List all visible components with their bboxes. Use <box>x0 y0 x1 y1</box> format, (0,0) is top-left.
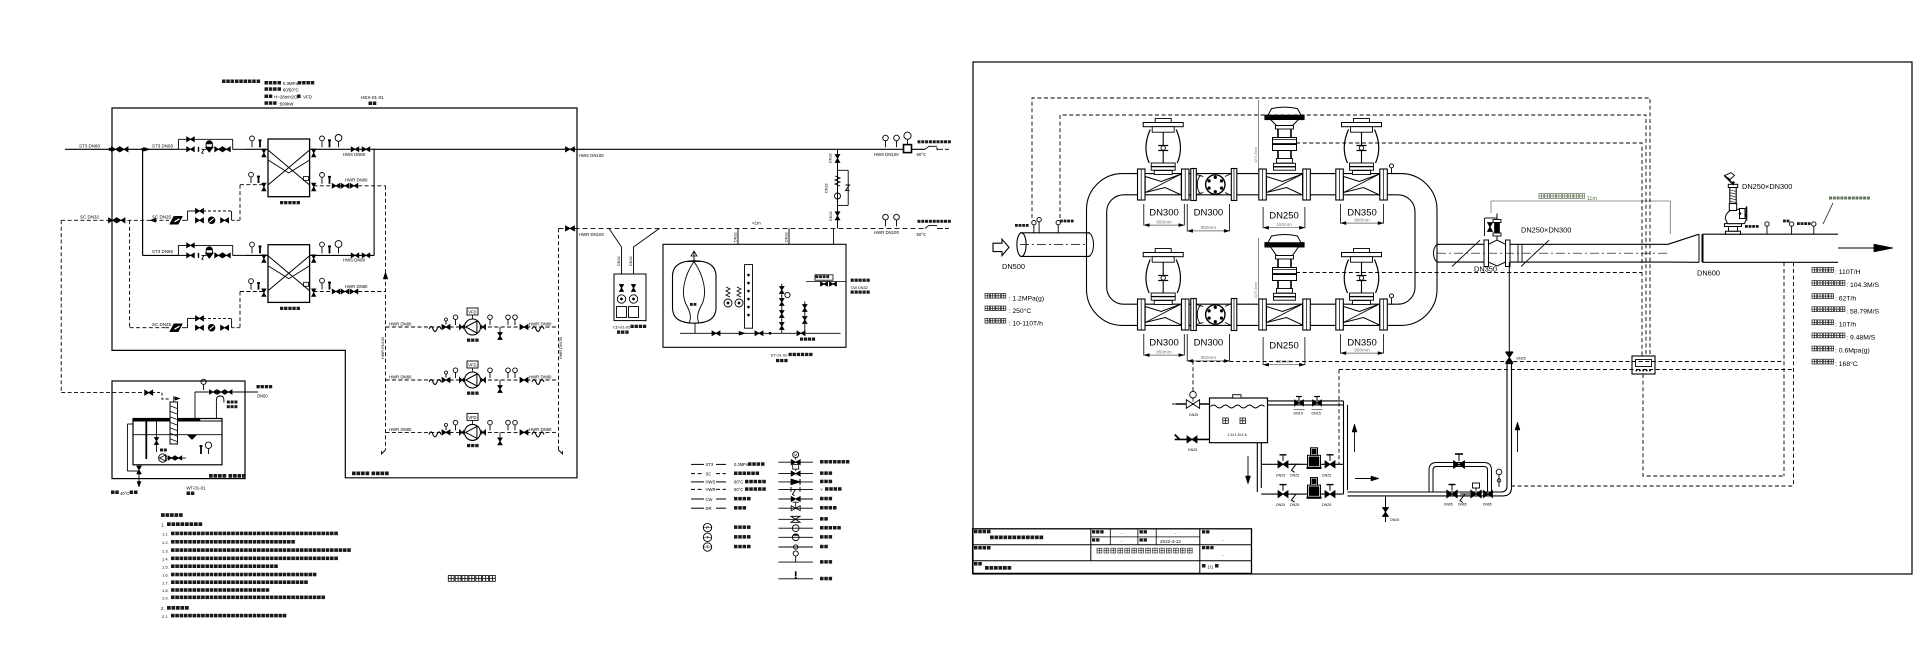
trap line valves <box>196 325 204 330</box>
svg-text:DN300: DN300 <box>1149 338 1179 349</box>
svg-text:DN25: DN25 <box>1189 413 1198 417</box>
steam main ST3 DN80 wire <box>65 148 178 150</box>
steam bypass group 1 <box>178 148 188 150</box>
bypass rect <box>838 169 849 171</box>
reducer <box>460 377 464 382</box>
tank outlet pipe top <box>1268 400 1344 402</box>
vent hook <box>216 396 224 407</box>
DN250 bot dimension bracket <box>1262 337 1264 365</box>
svg-text:DN250×DN300: DN250×DN300 <box>1521 226 1571 235</box>
DN250 top dimension bracket <box>1262 207 1264 228</box>
svg-text:DN250: DN250 <box>1269 341 1299 352</box>
dashed pump-control line <box>1339 369 1794 371</box>
valves after PRV <box>215 147 223 152</box>
title 图名 <box>974 562 978 566</box>
svg-text:DN25: DN25 <box>1390 518 1399 522</box>
remark 接自来水管 CW DN32 从此处接入 <box>851 279 854 282</box>
svg-text:DN25: DN25 <box>1188 448 1197 452</box>
label 两台 WT <box>187 492 191 496</box>
pressure reducing valve w/ actuator <box>206 142 213 149</box>
svg-text:2.1.: 2.1. <box>162 614 169 619</box>
svg-text:HWR DN100: HWR DN100 <box>874 230 899 235</box>
gauges on HWS main <box>885 141 887 148</box>
label 水箱两台 ET <box>776 359 779 362</box>
main valves <box>187 147 195 152</box>
svg-text:50°C: 50°C <box>734 487 743 492</box>
steam branch 2 drop <box>142 149 144 255</box>
HX label 板式换热器 <box>280 201 283 204</box>
svg-text:SC: SC <box>706 471 712 476</box>
svg-text:60°C: 60°C <box>917 152 927 157</box>
legend item HWS <box>691 481 704 483</box>
svg-text:11m: 11m <box>1587 196 1598 202</box>
SC DN32 main dashed <box>61 219 108 221</box>
condensate tank unit box WT-01-01 <box>112 381 245 479</box>
VFD box <box>467 361 478 368</box>
svg-text:HWR DN80: HWR DN80 <box>529 375 552 380</box>
svg-text:DN25: DN25 <box>1290 503 1299 507</box>
elbow to riser <box>1501 486 1507 492</box>
outlet globe valves DN15 <box>1295 400 1304 406</box>
dashed level-control line <box>1193 362 1784 392</box>
header line4 换热量:500kW <box>265 101 269 105</box>
legend Y型过滤器 <box>778 488 813 490</box>
spec 9.48M/S <box>1812 333 1817 338</box>
svg-text:CD-01-02: CD-01-02 <box>613 325 631 330</box>
HWR riser right (pump discharge header) <box>558 228 560 450</box>
svg-text:0.3MPa: 0.3MPa <box>283 81 299 86</box>
svg-text:990mm: 990mm <box>1354 347 1369 352</box>
steam trap symbol <box>170 324 182 332</box>
bottom main line to riser <box>1348 491 1502 493</box>
legend 排水 <box>778 578 813 580</box>
svg-text:DN25: DN25 <box>1276 503 1285 507</box>
pressure reducing valve <box>1471 490 1481 498</box>
legend instrument circles <box>703 523 711 531</box>
spec 110T/H <box>1812 268 1817 273</box>
safety relief valve <box>1726 231 1741 234</box>
svg-text:VFD: VFD <box>468 362 476 367</box>
flash receiver column <box>170 402 178 444</box>
tank label 水箱 <box>1223 418 1229 424</box>
svg-text:40°C: 40°C <box>120 491 129 496</box>
HWS out of HX1: gauges <box>321 141 323 148</box>
legend 闸阀 <box>778 518 813 520</box>
legend 截止阀门 <box>778 507 813 509</box>
flex connector <box>429 380 441 385</box>
vertical dimension line DN250 bottom <box>1257 238 1259 330</box>
HX2 HWS riser to main <box>373 149 375 256</box>
control valve DN250 top <box>1259 169 1267 200</box>
gauge <box>455 373 457 379</box>
svg-text:850mm: 850mm <box>1201 225 1216 230</box>
remark green 蒸汽流速不大于35m/s <box>1829 197 1832 200</box>
riser end mark <box>382 450 386 454</box>
svg-text:DN32: DN32 <box>829 211 833 221</box>
CD-01-02 makeup unit box <box>614 274 646 321</box>
svg-text:DN65: DN65 <box>1483 503 1492 507</box>
controller box <box>1632 356 1655 374</box>
distribution loop inner <box>1107 195 1415 304</box>
globe valve DN300 top <box>1138 169 1146 200</box>
tank top outlet pipe to DN50 <box>195 391 258 393</box>
up arrow beside riser2 <box>1517 428 1519 452</box>
DN300 top2 dimension bracket <box>1186 204 1188 231</box>
svg-text:HEX-01-01: HEX-01-01 <box>361 95 384 100</box>
title 业主 cell <box>1202 530 1205 533</box>
tee to second branch <box>141 148 143 150</box>
svg-text:HWR DN80: HWR DN80 <box>529 322 552 327</box>
svg-text:HWR: HWR <box>706 487 716 492</box>
flow arrow right on main <box>1355 478 1375 480</box>
gauge out <box>489 373 491 379</box>
svg-text:1.1.: 1.1. <box>162 532 169 537</box>
instrument dashed line B y=115 <box>1060 115 1646 356</box>
header line3 水泵:H=28mH2O,带VFD <box>265 95 269 99</box>
reducer out <box>482 324 486 329</box>
remark 接生活、风机组空调机组 (return) <box>918 220 921 223</box>
svg-text:DN15: DN15 <box>1294 412 1303 416</box>
valve stack column 2 <box>804 302 806 334</box>
svg-text:2022-4-12: 2022-4-12 <box>1160 539 1181 544</box>
valve pair at box entry <box>112 147 120 152</box>
HWR end connector <box>925 225 949 228</box>
svg-text:0.3MPa: 0.3MPa <box>734 462 749 467</box>
DN300 top1 dimension bracket <box>1143 204 1145 226</box>
circulating pump <box>465 319 481 335</box>
svg-text:VFD: VFD <box>468 415 476 420</box>
flex connector out <box>532 380 544 385</box>
spec 62T/h <box>1812 294 1817 299</box>
gauges on inlet pipe <box>1033 225 1035 233</box>
internal valve stack <box>156 421 158 452</box>
gauge out <box>489 320 491 326</box>
title 项目名称 <box>974 546 978 550</box>
drain/vent on DN350 assembly <box>1496 214 1498 241</box>
client company name <box>990 536 994 540</box>
svg-text:ST3 DN80: ST3 DN80 <box>79 144 101 149</box>
svg-text:HWS: HWS <box>706 480 716 485</box>
check valve <box>520 325 528 330</box>
svg-text:HWR DN80: HWR DN80 <box>529 427 552 432</box>
riser to main pipe drain <box>1506 364 1508 486</box>
svg-text:HWS DN100: HWS DN100 <box>579 153 604 158</box>
straight-run dimension line 直管段距离不得小于11m <box>1491 200 1670 202</box>
level gauge column <box>745 265 753 329</box>
bypass valve on top <box>187 137 195 142</box>
pump label 热水泵 <box>467 392 470 395</box>
pilot line with gauge <box>1498 475 1500 487</box>
svg-text:H=28mH2O,: H=28mH2O, <box>274 95 299 100</box>
bypass loop rect <box>178 138 232 140</box>
svg-text:DN25: DN25 <box>1290 473 1299 477</box>
vent label 排气管 <box>227 401 230 404</box>
label 水箱两台 <box>617 331 620 334</box>
condensate tank body <box>133 419 222 465</box>
remark 接生活、风机组空调机组 <box>918 140 921 143</box>
svg-text:3271.5mm: 3271.5mm <box>1254 147 1258 163</box>
booster pump set A <box>1261 463 1343 465</box>
legend 止回阀 <box>778 481 813 483</box>
tank top band <box>133 419 200 421</box>
legend 二通电动调节阀 <box>778 461 813 463</box>
bladder expansion tank <box>673 261 717 323</box>
makeup pumps <box>619 285 623 292</box>
gauge out <box>489 425 491 431</box>
up arrow on riser <box>383 272 388 279</box>
pump label 热水泵 <box>467 339 470 342</box>
main valves <box>187 253 195 258</box>
flow arrow on steam main <box>144 147 151 151</box>
legend 电磁阀 <box>778 473 813 475</box>
HWS end connector <box>925 146 949 149</box>
tank bottom outlet <box>1256 443 1258 492</box>
svg-text:60/50°C: 60/50°C <box>283 87 299 92</box>
outlet drop into tank <box>194 392 196 419</box>
svg-text:CW DN32: CW DN32 <box>851 286 868 290</box>
svg-text:HWS DN80: HWS DN80 <box>343 258 366 263</box>
steam bypass group 2 <box>178 254 188 256</box>
valves after PRV <box>215 253 223 258</box>
manufacturer 富辰智能装备(杭州)有限公司 <box>1097 548 1102 553</box>
svg-text:HWR DN80: HWR DN80 <box>389 427 412 432</box>
tank lid <box>1233 395 1241 398</box>
circulating pump <box>465 424 481 440</box>
VFD box <box>467 308 478 315</box>
gauge labels tiny <box>1745 225 1748 228</box>
drain valve down <box>499 432 501 438</box>
svg-text:1.2.: 1.2. <box>162 540 169 545</box>
check valve <box>520 430 528 435</box>
motor valve on HWR <box>304 177 309 181</box>
diff valve symbol Z <box>846 185 850 191</box>
riser to gauges DN32 <box>833 228 835 244</box>
flow switch square <box>904 145 912 153</box>
auto air vent box <box>815 275 833 280</box>
label 换热机组 供货范围 (tank box) <box>209 474 213 478</box>
label 换热机组 供货范围 (main box) <box>352 472 356 476</box>
spec 0.6Mpa(g) <box>1812 346 1817 351</box>
riser down from outlet <box>1343 401 1345 494</box>
ET bottom drain pipe <box>694 323 696 333</box>
PRV bypass loop <box>1433 467 1488 493</box>
HX2 condensate out <box>250 284 252 290</box>
lower inlet valve <box>1175 435 1180 440</box>
svg-text:1.4.: 1.4. <box>162 557 169 562</box>
inlet pipe DN500 <box>1020 232 1090 234</box>
svg-text:VFD: VFD <box>468 309 476 314</box>
junction dot <box>109 148 112 151</box>
gauges out2 <box>507 320 509 326</box>
svg-text:1/1: 1/1 <box>1208 565 1214 570</box>
circulating pump <box>465 372 481 388</box>
svg-text:HWR DN100: HWR DN100 <box>381 337 385 359</box>
loop right outlet cap <box>1434 244 1439 262</box>
trap bypass rect <box>187 318 189 327</box>
CD unit drop lines <box>609 228 622 274</box>
svg-text:HWS DN100: HWS DN100 <box>874 152 899 157</box>
strainer DN300 bottom <box>1191 299 1197 331</box>
title block 客户名称 <box>974 530 978 534</box>
gauges out2 <box>507 425 509 431</box>
svg-text:DN250×DN300: DN250×DN300 <box>1742 182 1792 191</box>
svg-text:: 104.3M/S: : 104.3M/S <box>1846 282 1879 289</box>
drain valve down <box>499 327 501 333</box>
plate heat exchanger HX1 <box>268 139 310 197</box>
flex connector out <box>532 432 544 437</box>
inlet spec text 入口温度 250C <box>985 306 990 311</box>
svg-text:HWR DN80: HWR DN80 <box>389 375 412 380</box>
pump branch line <box>386 379 559 381</box>
pump branch line <box>386 431 559 433</box>
main line valve group (PRV station) <box>1447 490 1457 498</box>
VFD box <box>467 413 478 420</box>
label 底部排污 <box>800 338 803 341</box>
HWR riser left (pump suction header) <box>385 186 387 450</box>
dashed below controller <box>1643 374 1784 476</box>
unit tag qty 两台 <box>369 102 373 106</box>
spec 104.3M/S <box>1812 281 1817 286</box>
svg-text:1.9.: 1.9. <box>162 596 169 601</box>
HWS main exit valve <box>566 147 575 152</box>
svg-text:DN65: DN65 <box>1458 503 1467 507</box>
bypass valves bottom <box>835 212 840 220</box>
svg-text:Y: Y <box>820 487 823 492</box>
gauges before HX1 <box>251 141 253 148</box>
check valve <box>520 378 528 383</box>
relief valve outlet flange <box>1740 209 1746 219</box>
right drawing border <box>973 62 1912 574</box>
SC main valves <box>109 218 117 223</box>
distribution loop outer <box>1087 174 1438 326</box>
title 监理 cell <box>1202 546 1205 549</box>
instrument dashed line C y=143 <box>1296 143 1642 356</box>
legend item ST3 <box>691 463 704 465</box>
main pipe DN350 reducer valve assembly <box>1484 240 1489 267</box>
gauges before HX2 <box>251 247 253 254</box>
pressure reducing valve w/ actuator <box>206 248 213 255</box>
svg-text:DN32: DN32 <box>829 153 833 163</box>
svg-text:VFD: VFD <box>303 95 312 100</box>
inlet spec text 入口压力 1.2MPa(g) <box>985 294 990 299</box>
HWS out of HX2 <box>310 254 375 256</box>
reducer out <box>482 377 486 382</box>
DN300 bot2 dimension bracket <box>1186 334 1188 361</box>
svg-text:SC DN32: SC DN32 <box>80 215 100 220</box>
globe valve DN350 bottom <box>1336 299 1344 330</box>
water level line <box>133 434 222 436</box>
gauge <box>455 425 457 431</box>
drain valve down <box>499 380 501 386</box>
HX label 板式换热器 <box>280 307 283 310</box>
label 预留40C排水 <box>111 491 115 495</box>
steam trap symbol <box>170 217 182 225</box>
svg-text:WT-01-01: WT-01-01 <box>187 486 206 491</box>
svg-text:3271.5mm: 3271.5mm <box>1254 282 1258 298</box>
svg-text:: 110T/H: : 110T/H <box>1835 269 1861 276</box>
svg-text:DN300: DN300 <box>1194 208 1224 219</box>
pump branch line <box>386 326 559 328</box>
svg-text:DN32: DN32 <box>734 232 738 242</box>
svg-text:850mm: 850mm <box>1201 355 1216 360</box>
gauges on DN600 <box>1766 226 1768 234</box>
svg-text:DN500: DN500 <box>1002 262 1025 271</box>
svg-text:ET-01-02: ET-01-02 <box>771 353 788 358</box>
outlet pipe from loop <box>1437 243 1484 245</box>
tank inlet dashed + valve <box>145 390 153 395</box>
DN350 top dimension bracket <box>1340 204 1342 224</box>
butterfly valve <box>442 430 450 435</box>
svg-text:ST3 DN65: ST3 DN65 <box>152 249 174 254</box>
tank water wave line <box>1211 405 1265 408</box>
svg-text:1.7.: 1.7. <box>162 580 169 585</box>
svg-text:>1m: >1m <box>752 221 761 226</box>
reducer <box>460 324 464 329</box>
outflow arrow <box>1838 247 1874 249</box>
svg-text:HWS DN80: HWS DN80 <box>343 152 366 157</box>
svg-text:1.3.: 1.3. <box>162 548 169 553</box>
svg-text:HWR DN80: HWR DN80 <box>389 322 412 327</box>
svg-text:DN32: DN32 <box>825 183 829 193</box>
svg-text:DN300: DN300 <box>1194 338 1224 349</box>
single line to pipe bottom <box>1508 262 1510 352</box>
DN300 bot1 dimension bracket <box>1143 334 1145 356</box>
legend item HWR <box>691 488 704 490</box>
svg-text:: 250°C: : 250°C <box>1009 307 1032 315</box>
title 设计人 row <box>1092 530 1095 533</box>
svg-text:DR: DR <box>706 506 712 511</box>
svg-text:192mm: 192mm <box>1276 222 1291 227</box>
gauge <box>455 320 457 326</box>
relief valve spring housing <box>1729 204 1736 211</box>
svg-text:HWR DN80: HWR DN80 <box>345 284 368 289</box>
tank drain valve <box>137 466 141 474</box>
svg-text:DN300: DN300 <box>1149 208 1179 219</box>
spec 168°C <box>1812 359 1817 364</box>
svg-text:DN25: DN25 <box>1322 503 1331 507</box>
header label 板换式换热机组参数 <box>222 80 226 84</box>
svg-text:850mm: 850mm <box>1156 219 1171 224</box>
svg-text:ST3: ST3 <box>706 462 714 467</box>
pump label 热水泵 <box>467 444 470 447</box>
svg-text:2.: 2. <box>161 606 165 611</box>
globe valve DN300 bottom <box>1138 299 1146 330</box>
svg-text:1.5×1.5×1.5: 1.5×1.5×1.5 <box>1228 433 1247 437</box>
svg-text:: 1.2MPa(g): : 1.2MPa(g) <box>1009 295 1045 302</box>
svg-text:HWR DN100: HWR DN100 <box>559 337 563 359</box>
HX2 HWR return <box>313 291 385 293</box>
svg-text:CW: CW <box>706 497 713 502</box>
receiver top vent <box>173 396 175 402</box>
instrument dashed line A y=98 <box>1032 98 1650 356</box>
spring relief on riser <box>835 176 840 186</box>
svg-text:DN15: DN15 <box>1312 412 1321 416</box>
svg-text:1.6.: 1.6. <box>162 573 169 578</box>
tank small label <box>690 303 693 306</box>
legend item DR <box>691 507 704 509</box>
svg-text:1.5.: 1.5. <box>162 564 169 569</box>
legend 放水阀 <box>778 561 813 563</box>
svg-text:990mm: 990mm <box>1354 217 1369 222</box>
svg-text:: 0.6Mpa(g): : 0.6Mpa(g) <box>1835 348 1870 355</box>
svg-text:DN250: DN250 <box>1269 211 1299 222</box>
svg-text:SC DN25: SC DN25 <box>152 322 172 327</box>
thermometer <box>338 141 340 147</box>
inlet arrow symbol <box>993 239 1009 255</box>
svg-text:60°C: 60°C <box>734 480 743 485</box>
pressure differential bypass riser <box>837 149 839 228</box>
dimension text <box>1539 194 1544 199</box>
